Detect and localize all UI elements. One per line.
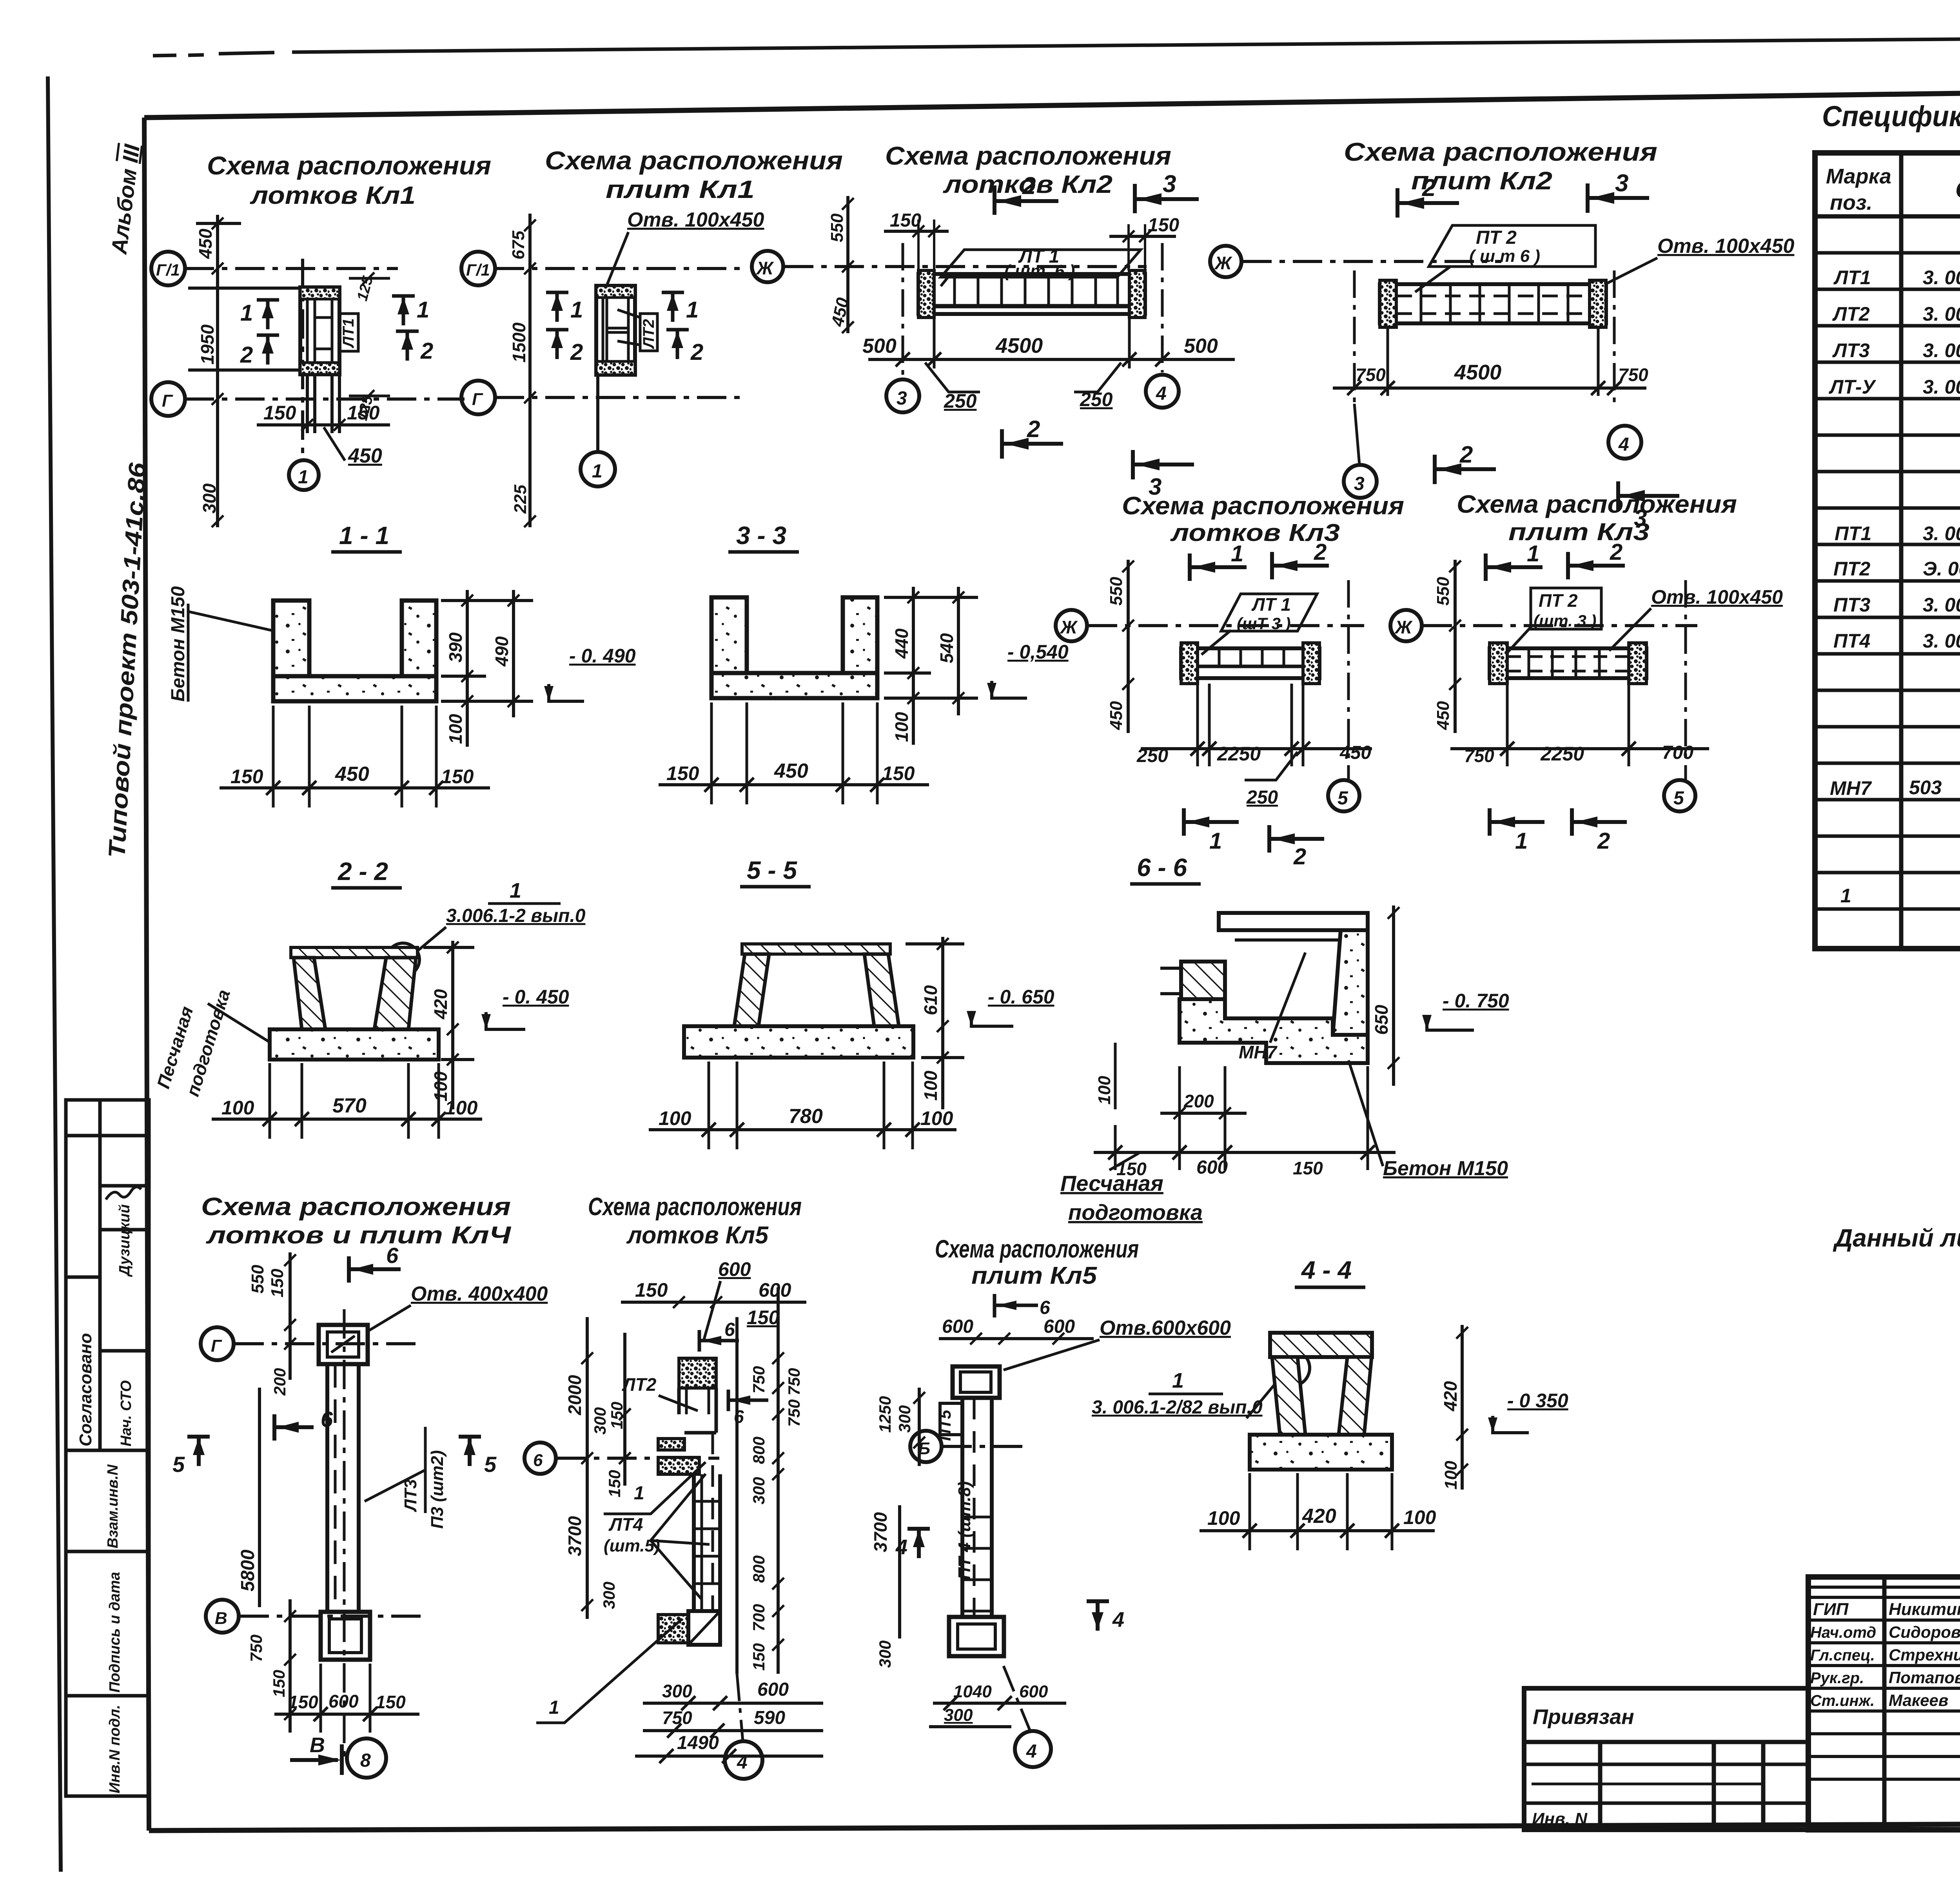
svg-text:3: 3 [897,388,907,409]
svg-text:150: 150 [882,762,915,784]
svg-text:4 - 4: 4 - 4 [1301,1256,1352,1284]
svg-text:ЛТ-У: ЛТ-У [1829,376,1877,398]
svg-text:3. 006.1- 2/82 вып. 1 - 2: 3. 006.1- 2/82 вып. 1 - 2 [1923,594,1960,616]
svg-text:250: 250 [944,390,977,412]
axis line Г [185,397,465,401]
svg-text:ГИП: ГИП [1813,1600,1849,1619]
svg-text:100: 100 [1207,1507,1240,1529]
svg-text:750: 750 [750,1366,768,1394]
svg-text:6: 6 [1040,1297,1050,1318]
svg-text:150: 150 [288,1692,318,1712]
svg-text:450: 450 [1339,742,1371,763]
svg-text:- 0. 490: - 0. 490 [569,645,636,667]
beam лотки ЛТ1 row D3 [918,270,1145,318]
dim 650 right 6-6 [1392,905,1395,1086]
axis circle Г/1 [151,252,185,285]
svg-text:100: 100 [1095,1076,1114,1105]
svg-text:3. 006.1-2/82 вып. 1- 1: 3. 006.1-2/82 вып. 1- 1 [1923,267,1960,289]
svg-text:Схема расположения: Схема расположения [885,141,1171,170]
svg-text:420: 420 [430,989,451,1020]
svg-text:100: 100 [445,1097,478,1119]
element jog blocks D8 [658,1433,720,1611]
vertical dim line D7 top [289,1252,292,1380]
svg-text:300: 300 [199,483,220,514]
opening square top D7 [319,1325,368,1364]
svg-text:100: 100 [920,1107,953,1129]
section mark 6 top D8 [699,1330,739,1352]
svg-text:Гл.спец.: Гл.спец. [1810,1647,1875,1664]
svg-text:5800: 5800 [238,1550,258,1591]
axis circle Ж D4 [1210,246,1241,277]
svg-text:ЛТ4: ЛТ4 [608,1514,643,1535]
node circle 3 D3 [886,379,919,412]
axis circle Ж D6 [1390,610,1422,641]
section mark 2 bottom D5 [1269,825,1324,853]
svg-text:503: 503 [1909,777,1942,798]
section mark 2 left D1 [257,335,279,365]
svg-text:1500: 1500 [509,322,529,363]
svg-text:8: 8 [360,1750,371,1771]
section 2-2 bottom slab [270,1029,439,1060]
svg-text:150: 150 [666,762,699,784]
section mark 6 mid D8 [728,1390,768,1411]
svg-text:Никитин: Никитин [1889,1600,1960,1619]
bottom dim line 3-3 [659,783,929,786]
svg-text:100: 100 [920,1071,941,1101]
bottom dim line D3 [868,358,1235,361]
svg-text:лотков и плит КлЧ: лотков и плит КлЧ [205,1222,511,1249]
svg-text:6: 6 [734,1406,744,1427]
axis line Г D2 [495,396,745,399]
svg-text:Г: Г [472,390,483,409]
svg-text:Стрехнин: Стрехнин [1889,1646,1960,1664]
element bottom block D9 [949,1617,1004,1656]
svg-text:Отв. 100х450: Отв. 100х450 [1657,235,1795,258]
svg-text:5: 5 [484,1452,497,1477]
svg-text:500: 500 [1184,335,1218,357]
bottom dim line 2-2 [212,1118,482,1121]
axis circle Б D9 [910,1431,942,1462]
svg-text:1: 1 [240,300,253,326]
section mark 6 top D7 [349,1256,401,1283]
label ПТ2 (шт.3) D6 [1531,588,1601,629]
svg-text:3.006.1-2 вып.0: 3.006.1-2 вып.0 [446,905,586,926]
svg-text:250: 250 [1080,388,1113,410]
svg-text:Б: Б [918,1439,930,1458]
svg-text:150: 150 [376,1692,406,1712]
svg-text:МН7: МН7 [1239,1042,1278,1062]
node circle 5 D6 [1664,780,1695,811]
svg-text:ЛТ 1: ЛТ 1 [1251,594,1291,615]
vertical axis through element D1 [301,259,304,461]
bottom dim line D1 [257,374,390,433]
svg-text:Согласовано: Согласовано [76,1333,95,1446]
section 5-5 right wall [864,954,899,1026]
section mark 4 left D9 [907,1529,930,1558]
section 2-2 top plate [291,947,417,958]
svg-text:750: 750 [247,1635,265,1662]
svg-text:- 0 350: - 0 350 [1507,1390,1568,1412]
svg-text:ПТ2: ПТ2 [1833,558,1871,580]
svg-text:- 0. 650: - 0. 650 [988,986,1054,1008]
dim line right 5-5 [906,937,964,1109]
svg-text:2: 2 [690,339,703,365]
svg-text:Схема расположения: Схема расположения [207,151,491,180]
svg-text:1: 1 [510,879,521,902]
node circle 3 D4 [1344,465,1377,498]
bottom dim line D6 [1450,747,1709,750]
label box ЛТ1 [339,314,358,351]
svg-text:440: 440 [891,628,912,659]
svg-text:2: 2 [1422,174,1436,201]
svg-text:Ж: Ж [1394,617,1413,637]
small dim 125 bottom right D1 [349,395,390,397]
section mark 2 bottom D3 [1002,429,1063,459]
axis line Г D7 [234,1342,423,1345]
svg-text:800: 800 [750,1437,768,1464]
ПТ5 tab D9 [940,1403,962,1435]
svg-text:100: 100 [659,1107,691,1129]
section 2-2 left wall [294,958,325,1029]
svg-text:750: 750 [1464,746,1494,766]
bottom dims D9 [933,1702,1066,1705]
section mark 1 top D6 [1486,553,1543,581]
svg-text:- 0,540: - 0,540 [1007,641,1069,663]
svg-text:3: 3 [1615,170,1628,197]
svg-text:2: 2 [240,342,253,368]
svg-text:600: 600 [757,1679,789,1700]
svg-text:4: 4 [1026,1741,1037,1762]
svg-text:3. 006.1-2/82 вып.0: 3. 006.1-2/82 вып.0 [1092,1397,1263,1418]
svg-text:150: 150 [1293,1158,1323,1178]
svg-text:550: 550 [248,1265,267,1294]
dim lines right of 3-3 [884,587,978,745]
leader 250 left D3 [925,363,980,392]
svg-text:1 - 1: 1 - 1 [339,521,389,550]
svg-text:4: 4 [1618,434,1629,455]
channel vertical D7 [327,1309,359,1764]
sheet outer border, small dashes top left [153,55,176,56]
axis circle В D7 [206,1600,239,1633]
section 3-3 left wall [711,597,747,698]
svg-text:600: 600 [1019,1682,1048,1701]
axis line Г/1 [185,267,398,270]
svg-text:2: 2 [570,339,583,365]
svg-text:2: 2 [1293,844,1306,869]
section mark 2 left D2 [546,330,568,359]
svg-text:ПТ 2: ПТ 2 [1539,590,1578,611]
svg-text:600: 600 [1196,1157,1228,1178]
svg-text:650: 650 [1371,1005,1392,1035]
svg-text:Инв.N подл.: Инв.N подл. [107,1705,123,1793]
svg-text:3: 3 [1163,171,1176,198]
svg-text:610: 610 [920,985,941,1015]
element ties D1 [188,287,300,290]
svg-text:ЛТ2: ЛТ2 [622,1374,657,1395]
svg-text:ЛТ3: ЛТ3 [1832,339,1870,361]
svg-text:300: 300 [944,1706,973,1725]
svg-text:750: 750 [662,1707,692,1728]
dim lines right of 1-1 [441,590,533,747]
section mark 6 top D9 [995,1294,1038,1317]
section 5-5 bottom slab [684,1026,913,1058]
svg-text:лотков Кл1: лотков Кл1 [250,181,416,209]
svg-text:1: 1 [634,1483,644,1504]
svg-text:250: 250 [1246,787,1278,808]
bottom dim line D4 [1333,386,1646,390]
svg-text:Г/1: Г/1 [466,261,490,279]
detail circle at wall corner 2-2 [387,943,419,976]
svg-text:2: 2 [1027,416,1040,442]
svg-text:В: В [310,1733,325,1757]
svg-text:- 0. 450: - 0. 450 [503,986,569,1008]
section mark 2 bottom D6 [1572,808,1627,836]
section mark 1 left D1 [257,300,279,329]
vertical dim line D6 [1454,560,1457,733]
svg-text:100: 100 [1403,1506,1436,1528]
label ПТ2 (шт 6) D4 [1429,225,1595,267]
dim 150 right D3 [1109,235,1176,238]
svg-text:ЛТ1: ЛТ1 [1833,267,1871,289]
section mark 5 right D7 [459,1437,481,1466]
svg-text:540: 540 [936,633,957,663]
svg-text:ПТ 2: ПТ 2 [1476,227,1517,248]
svg-text:ПТ4: ПТ4 [1833,630,1870,652]
svg-text:6: 6 [321,1407,333,1432]
svg-text:300: 300 [591,1407,609,1435]
axis line Г/1 D2 [495,267,745,270]
svg-text:3700: 3700 [564,1516,585,1556]
section mark 3 bottom D4 [1618,481,1679,511]
svg-text:150: 150 [268,1268,287,1297]
bottom dims D8 [643,1702,823,1705]
node circle 4 bottom D9 [1015,1731,1051,1767]
svg-text:2000: 2000 [564,1375,585,1415]
svg-text:6: 6 [533,1451,543,1470]
vertical dimension line D2 [528,214,532,527]
svg-text:Схема расположения: Схема расположения [1344,137,1657,166]
svg-text:2: 2 [1022,172,1036,200]
svg-text:5 - 5: 5 - 5 [747,856,797,884]
leader 450 bottom D1 [324,427,345,461]
main drawing frame [144,84,1960,118]
svg-text:4500: 4500 [995,334,1043,357]
svg-text:ЛТ3: ЛТ3 [401,1479,420,1512]
svg-text:Ж: Ж [1060,617,1078,637]
axis line Ж D5 [1088,624,1364,627]
axis circle Ж D5 [1056,610,1087,641]
svg-text:( шт. 6 ): ( шт. 6 ) [1004,261,1075,281]
section 4-4 right wall [1339,1357,1372,1435]
svg-text:4500: 4500 [1454,361,1501,384]
svg-text:3 - 3: 3 - 3 [736,521,786,550]
svg-text:Отв. 100х450: Отв. 100х450 [1651,586,1783,608]
svg-text:Ж: Ж [1214,253,1232,273]
svg-text:3. 006.1-2/82 вып. 1 -1: 3. 006.1-2/82 вып. 1 -1 [1923,339,1960,361]
section mark 1 left D2 [546,292,568,322]
section mark 1 bottom D6 [1490,808,1544,836]
section mark 2 top D6 [1568,552,1625,579]
section mark 2 top D5 [1272,552,1329,579]
node circle 1 of D1 [289,460,319,490]
svg-text:4: 4 [895,1535,907,1559]
svg-text:плит Кл1: плит Кл1 [606,175,755,203]
svg-text:Подпись и дата: Подпись и дата [107,1572,123,1693]
section 6-6 left masonry block [1181,962,1225,999]
svg-text:Схема расположения: Схема расположения [588,1192,802,1221]
svg-text:Привязан: Привязан [1533,1705,1634,1729]
svg-text:750: 750 [1356,365,1386,385]
svg-text:150: 150 [890,210,921,231]
stamp signature squiggle [106,1187,141,1199]
svg-text:1950: 1950 [197,324,218,365]
element лоток row D5 [1181,643,1319,684]
section 4-4 left wall [1272,1357,1305,1435]
bottom dim line 1-1 [220,786,490,789]
dim 5800 D7 [258,1388,261,1607]
svg-text:( ш т 6 ): ( ш т 6 ) [1469,247,1540,266]
svg-text:1: 1 [592,461,603,482]
svg-text:Схема расположения: Схема расположения [1122,492,1404,520]
node circle 5 D5 [1328,780,1359,811]
section 1-1 right wall [402,601,436,701]
svg-text:600: 600 [1044,1316,1075,1337]
left margin stamp table [66,1100,149,1796]
top dim D9 [939,1337,1094,1340]
bottom dim line D5 [1141,747,1372,750]
dim 100 left 6-6 [1114,1043,1117,1109]
svg-text:подготовка: подготовка [1068,1200,1203,1225]
section mark 6 mid D7 [274,1414,314,1441]
svg-text:1490: 1490 [677,1733,719,1753]
svg-text:3. 006.1- 2/82 вып. 1 - 2: 3. 006.1- 2/82 вып. 1 - 2 [1923,523,1960,544]
svg-text:лотков Кл5: лотков Кл5 [626,1222,769,1249]
svg-text:5: 5 [1673,788,1684,809]
svg-text:Потапова: Потапова [1889,1668,1960,1687]
svg-text:Песчаная: Песчаная [1060,1171,1163,1196]
svg-text:570: 570 [332,1094,367,1117]
section mark 2 bottom D4 [1435,455,1496,484]
svg-text:ПТ3: ПТ3 [1833,594,1871,616]
svg-text:Г: Г [162,391,173,410]
svg-text:100: 100 [221,1097,254,1119]
svg-text:Взам.инв.N: Взам.инв.N [105,1464,121,1548]
svg-text:1: 1 [1209,828,1222,854]
svg-text:600: 600 [759,1279,791,1301]
left dim ladder D8 [586,1317,589,1619]
bottom dim line D7 [274,1713,419,1716]
dim 200 6-6 [1160,1112,1247,1115]
svg-text:П3 (шт2): П3 (шт2) [428,1450,447,1529]
detail circle 4-4 [1274,1350,1310,1386]
section mark 2 right D2 [666,330,689,359]
element top block D9 [953,1366,1000,1398]
svg-text:Отв.600х600: Отв.600х600 [1100,1317,1231,1339]
svg-text:6: 6 [386,1243,399,1268]
svg-text:Бетон М150: Бетон М150 [1383,1157,1508,1180]
svg-text:Отв. 100х450: Отв. 100х450 [627,209,764,231]
title block verticals [1882,1577,1887,1830]
svg-text:750: 750 [785,1399,803,1427]
svg-text:(шт. 3 ): (шт. 3 ) [1534,611,1596,630]
svg-text:Дузицкий: Дузицкий [116,1204,133,1277]
svg-text:150: 150 [635,1279,668,1301]
svg-text:600: 600 [718,1258,751,1280]
node circle 4 D4 [1608,426,1641,459]
vertical dimension line D1 [216,215,219,527]
svg-text:600: 600 [942,1316,973,1337]
svg-text:3. 006.1-2/82 вып.-1-1: 3. 006.1-2/82 вып.-1-1 [1923,303,1960,325]
svg-text:поз.: поз. [1830,191,1873,214]
section mark 3 top D4 [1588,183,1649,213]
svg-text:5: 5 [1338,788,1348,809]
svg-text:Бетон М150: Бетон М150 [168,586,189,702]
section 3-3 floor slab [711,673,877,698]
svg-text:450: 450 [335,763,369,786]
axis line Ж D6 [1423,624,1697,627]
svg-text:ЛТ2: ЛТ2 [640,319,657,349]
node circle 1 of D2 [596,375,599,452]
section mark 1 right D1 [392,296,415,325]
svg-text:В: В [215,1609,227,1628]
svg-text:1: 1 [1172,1369,1184,1392]
svg-text:плит Кл5: плит Кл5 [971,1262,1098,1289]
svg-text:300: 300 [600,1582,618,1609]
svg-text:150: 150 [347,402,380,424]
section 1-1 left wall [273,601,309,701]
svg-text:1: 1 [686,297,699,323]
svg-text:450: 450 [1107,701,1126,730]
svg-text:300: 300 [895,1405,914,1433]
svg-text:- 0. 750: - 0. 750 [1443,990,1509,1012]
vertical axis right D5 [1347,580,1350,780]
svg-text:1: 1 [570,297,583,323]
svg-text:1: 1 [1231,541,1243,566]
axis line В D7 [240,1615,423,1618]
bottom block D8 [658,1611,720,1645]
element плита ЛТ2 plan D2 [596,286,635,375]
dim 150 left D3 [884,230,949,233]
dim 420 right 4-4 [1461,1325,1464,1490]
svg-text:150: 150 [750,1643,768,1671]
svg-text:700: 700 [750,1604,768,1631]
section mark 5 left D7 [187,1437,210,1466]
section mark 2 top D3 [995,185,1058,215]
svg-text:2: 2 [420,338,433,364]
svg-text:420: 420 [1302,1505,1336,1528]
bottom dim line 4-4 [1200,1529,1435,1532]
vertical dim line D3 [846,196,849,333]
svg-text:450: 450 [774,760,808,782]
bottom dim line 6-6 [1094,1151,1396,1154]
label ЛТ1 (шТ3) D5 [1221,594,1317,631]
svg-text:2: 2 [1610,539,1622,565]
vertical axis right D6 [1684,580,1687,780]
svg-text:Схема расположения: Схема расположения [545,146,843,175]
svg-text:100: 100 [891,712,912,742]
svg-text:Э. 006.1- 2/82 вып. 1 - 2: Э. 006.1- 2/82 вып. 1 - 2 [1923,558,1960,580]
element лоток ЛТ1 plan D1 [300,287,339,374]
label ЛТ3 / П3 (шт2) D7 [424,1427,427,1513]
svg-text:2: 2 [1597,828,1610,854]
section mark 4 right D9 [1087,1601,1109,1631]
svg-text:700: 700 [1662,742,1693,763]
sheet outer border, left edge line [48,76,61,1872]
svg-text:3. 0061-2/82 Зып. 1 - 1: 3. 0061-2/82 Зып. 1 - 1 [1923,376,1960,398]
section mark 2 top D4 [1397,188,1459,218]
svg-text:550: 550 [828,213,847,242]
small dim 125 top right D1 [349,277,390,280]
